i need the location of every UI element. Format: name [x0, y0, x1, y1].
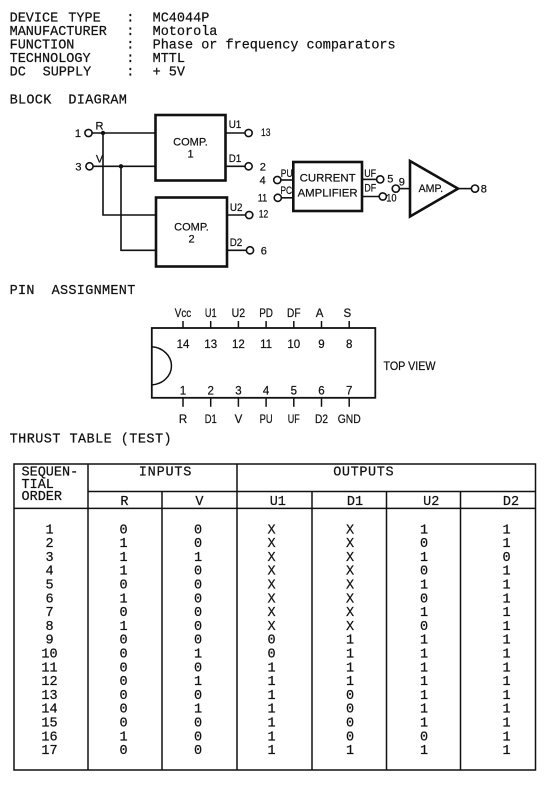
svg-text:1: 1 — [194, 648, 202, 663]
svg-text:Vcc: Vcc — [175, 308, 192, 320]
svg-text:8: 8 — [481, 184, 487, 196]
svg-text:0: 0 — [194, 565, 202, 580]
svg-text:1: 1 — [267, 661, 275, 676]
svg-text:1: 1 — [420, 744, 428, 759]
svg-text:6: 6 — [261, 245, 267, 257]
svg-text:14: 14 — [177, 339, 190, 351]
svg-text:4: 4 — [45, 565, 53, 580]
svg-text:6: 6 — [45, 592, 53, 607]
svg-text:0: 0 — [267, 634, 275, 649]
svg-text:13: 13 — [261, 127, 271, 139]
svg-text:1: 1 — [502, 565, 510, 580]
svg-text:1: 1 — [194, 675, 202, 690]
svg-text:5: 5 — [45, 579, 53, 594]
wire R: pin1 to COMP.1 input — [92, 132, 155, 134]
svg-text:0: 0 — [346, 730, 354, 745]
svg-text:D2: D2 — [230, 237, 243, 249]
svg-text:13: 13 — [204, 339, 217, 351]
svg-text:10: 10 — [41, 648, 57, 663]
terminal circle D1 / pin 2 — [245, 163, 252, 170]
terminal circle PC / pin 11 — [274, 194, 281, 201]
svg-text:1: 1 — [119, 592, 127, 607]
svg-text:0: 0 — [119, 661, 127, 676]
wire D1 output — [226, 165, 246, 167]
terminal circle DF / pin 10 — [379, 193, 386, 200]
svg-text:COMP.: COMP. — [173, 137, 208, 149]
svg-text:1: 1 — [267, 703, 275, 718]
svg-text:7: 7 — [346, 385, 352, 397]
terminal circle U2 / pin 12 — [246, 211, 253, 218]
svg-text:0: 0 — [420, 592, 428, 607]
pin 9 tick (A) — [321, 321, 323, 328]
pin 11 tick (PD) — [265, 321, 267, 328]
svg-text:0: 0 — [346, 717, 354, 732]
svg-text:1: 1 — [180, 385, 186, 397]
svg-text:UF: UF — [364, 168, 376, 180]
svg-text:16: 16 — [41, 730, 57, 745]
svg-text:TOP VIEW: TOP VIEW — [384, 361, 436, 373]
svg-text:S: S — [343, 308, 351, 320]
pin 10 tick (DF) — [293, 321, 295, 328]
svg-text:0: 0 — [119, 703, 127, 718]
svg-text:10: 10 — [287, 339, 300, 351]
spec list: device type / manufacturer / function / technology / dc supply — [10, 11, 396, 80]
wire AMP output to pin 8 — [458, 188, 471, 190]
svg-text:0: 0 — [420, 565, 428, 580]
svg-text:0: 0 — [119, 606, 127, 621]
pin 1 terminal circle — [85, 129, 92, 136]
svg-text:1: 1 — [119, 730, 127, 745]
svg-text:1: 1 — [502, 717, 510, 732]
svg-text:0: 0 — [194, 579, 202, 594]
junction dot node V — [119, 164, 123, 168]
svg-text:1: 1 — [420, 606, 428, 621]
svg-text:U1: U1 — [229, 119, 242, 131]
svg-text:X: X — [346, 606, 354, 621]
svg-text:0: 0 — [194, 744, 202, 759]
wire UF output — [362, 178, 377, 180]
svg-text:1: 1 — [194, 703, 202, 718]
svg-text:0: 0 — [194, 523, 202, 538]
svg-text:4: 4 — [260, 175, 266, 187]
wire U2 output — [227, 214, 246, 216]
svg-text:10: 10 — [386, 193, 396, 205]
svg-text:PC: PC — [280, 185, 292, 197]
svg-text:11: 11 — [41, 661, 57, 676]
comparator COMP.1 box — [156, 115, 226, 181]
pin 12 tick (U2) — [237, 321, 239, 328]
svg-text:2: 2 — [260, 161, 266, 173]
svg-text:17: 17 — [41, 744, 57, 759]
pin 3 tick (V) — [237, 398, 239, 407]
svg-text:0: 0 — [194, 620, 202, 635]
svg-text:3: 3 — [45, 551, 53, 566]
wire pin9 to AMP input — [399, 188, 410, 190]
svg-text:+ 5V: + 5V — [153, 66, 186, 81]
svg-text:1: 1 — [346, 634, 354, 649]
svg-text:1: 1 — [420, 689, 428, 704]
svg-text:0: 0 — [194, 661, 202, 676]
wire V: pin3 to COMP.1 input — [93, 165, 156, 167]
svg-text:0: 0 — [119, 648, 127, 663]
svg-text:GND: GND — [338, 414, 361, 426]
svg-text:1: 1 — [346, 675, 354, 690]
wire PC input — [281, 197, 293, 199]
svg-text:0: 0 — [194, 592, 202, 607]
svg-text:DC: DC — [10, 66, 26, 81]
svg-text:PU: PU — [260, 414, 273, 426]
pin 2 tick (D1) — [210, 398, 212, 407]
truth table grid — [14, 464, 536, 770]
svg-text::: : — [126, 66, 134, 81]
wire U1 output — [226, 132, 246, 134]
svg-text:1: 1 — [420, 634, 428, 649]
svg-text:1: 1 — [420, 551, 428, 566]
svg-text:1: 1 — [119, 551, 127, 566]
svg-text:0: 0 — [346, 689, 354, 704]
svg-text:14: 14 — [41, 703, 57, 718]
svg-text:D2: D2 — [503, 495, 519, 510]
svg-text:U2: U2 — [230, 202, 243, 214]
terminal circle PU / pin 4 — [274, 176, 281, 183]
svg-text:0: 0 — [119, 579, 127, 594]
svg-text:4: 4 — [263, 385, 270, 397]
svg-text:12: 12 — [41, 675, 57, 690]
svg-text:0: 0 — [502, 551, 510, 566]
svg-text:D2: D2 — [315, 414, 328, 426]
svg-text:11: 11 — [258, 193, 268, 205]
svg-text:0: 0 — [194, 634, 202, 649]
svg-text:0: 0 — [194, 730, 202, 745]
svg-text:UF: UF — [288, 414, 300, 426]
svg-text:7: 7 — [45, 606, 53, 621]
svg-text:X: X — [267, 606, 275, 621]
svg-text:U1: U1 — [270, 495, 286, 510]
svg-text:2: 2 — [207, 385, 213, 397]
svg-text:PD: PD — [259, 308, 273, 320]
pin 13 tick (U1) — [210, 321, 212, 328]
junction dot node R — [101, 131, 105, 135]
wire V branch down to COMP.2 — [121, 166, 156, 250]
svg-text:INPUTS: INPUTS — [139, 466, 192, 481]
svg-text:U1: U1 — [205, 308, 217, 320]
svg-text:0: 0 — [119, 523, 127, 538]
svg-text:1: 1 — [267, 689, 275, 704]
svg-text:12: 12 — [259, 209, 269, 221]
svg-text:1: 1 — [267, 744, 275, 759]
svg-text:2: 2 — [188, 233, 194, 245]
svg-text:DF: DF — [287, 308, 301, 320]
svg-text:1: 1 — [502, 523, 510, 538]
svg-text:X: X — [346, 565, 354, 580]
table data rows — [41, 523, 510, 759]
pin 5 tick (UF) — [293, 398, 295, 407]
svg-text:5: 5 — [387, 174, 393, 186]
svg-text:1: 1 — [346, 661, 354, 676]
svg-text:3: 3 — [235, 385, 241, 397]
svg-text:X: X — [346, 579, 354, 594]
svg-text:13: 13 — [41, 689, 57, 704]
svg-text:D1: D1 — [205, 414, 217, 426]
svg-text:THRUST TABLE (TEST): THRUST TABLE (TEST) — [10, 433, 172, 448]
svg-text:1: 1 — [420, 579, 428, 594]
terminal circle pin 9 — [392, 185, 399, 192]
svg-text:0: 0 — [420, 537, 428, 552]
svg-text:R: R — [120, 495, 128, 510]
svg-text:9: 9 — [45, 634, 53, 649]
IC package DIP-14 outline — [152, 328, 375, 398]
svg-text:1: 1 — [420, 675, 428, 690]
pin 14 tick (Vcc) — [182, 321, 184, 328]
svg-text:1: 1 — [420, 717, 428, 732]
svg-text:1: 1 — [420, 703, 428, 718]
svg-text:1: 1 — [502, 634, 510, 649]
svg-text:1: 1 — [119, 565, 127, 580]
svg-text:D1: D1 — [347, 495, 363, 510]
svg-text:1: 1 — [502, 537, 510, 552]
svg-text:X: X — [267, 592, 275, 607]
pin 3 terminal circle — [86, 163, 93, 170]
svg-text:1: 1 — [420, 661, 428, 676]
terminal circle pin 8 — [471, 185, 478, 192]
svg-text:0: 0 — [119, 634, 127, 649]
svg-text:X: X — [267, 620, 275, 635]
svg-text:0: 0 — [194, 606, 202, 621]
svg-text:1: 1 — [502, 661, 510, 676]
svg-text:0: 0 — [119, 675, 127, 690]
svg-text:R: R — [179, 414, 187, 426]
svg-text:X: X — [267, 565, 275, 580]
svg-text:AMPLIFIER: AMPLIFIER — [298, 188, 358, 200]
svg-text:0: 0 — [420, 730, 428, 745]
pin 4 tick (PU) — [265, 398, 267, 407]
svg-text:6: 6 — [318, 385, 324, 397]
svg-text:CURRENT: CURRENT — [300, 173, 356, 185]
svg-text:1: 1 — [267, 675, 275, 690]
svg-text:9: 9 — [399, 176, 405, 188]
svg-text:1: 1 — [187, 149, 193, 161]
svg-text:PU: PU — [281, 168, 293, 180]
svg-text:1: 1 — [194, 551, 202, 566]
current amplifier box U3 — [293, 162, 362, 211]
svg-text:X: X — [346, 537, 354, 552]
svg-text:BLOCK DIAGRAM: BLOCK DIAGRAM — [10, 93, 128, 108]
wire R branch down to COMP.2 — [103, 133, 156, 215]
svg-text:0: 0 — [420, 620, 428, 635]
svg-text:0: 0 — [346, 703, 354, 718]
svg-text:R: R — [96, 120, 104, 132]
svg-text:X: X — [346, 551, 354, 566]
svg-text:U2: U2 — [232, 308, 246, 320]
svg-text:0: 0 — [194, 717, 202, 732]
svg-text:D1: D1 — [229, 153, 242, 165]
comparator COMP.2 box — [156, 198, 227, 267]
svg-text:U2: U2 — [423, 495, 439, 510]
svg-text:V: V — [96, 153, 104, 165]
pin 6 tick (D2) — [321, 398, 323, 407]
svg-text:1: 1 — [119, 537, 127, 552]
svg-text:X: X — [267, 537, 275, 552]
svg-text:V: V — [235, 414, 243, 426]
svg-text:11: 11 — [260, 339, 272, 351]
svg-text:1: 1 — [502, 744, 510, 759]
svg-text:1: 1 — [502, 592, 510, 607]
terminal circle U1 / pin 13 — [245, 129, 252, 136]
svg-text:1: 1 — [502, 730, 510, 745]
svg-text:0: 0 — [194, 689, 202, 704]
svg-text:1: 1 — [119, 620, 127, 635]
svg-text:2: 2 — [45, 537, 53, 552]
svg-text:AMP.: AMP. — [419, 183, 444, 195]
svg-text:0: 0 — [119, 689, 127, 704]
svg-text:5: 5 — [291, 385, 297, 397]
svg-text:0: 0 — [267, 648, 275, 663]
pin 1 tick (R) — [182, 398, 184, 407]
svg-text:1: 1 — [45, 523, 53, 538]
svg-text:12: 12 — [232, 339, 245, 351]
svg-text:1: 1 — [346, 744, 354, 759]
svg-text:Phase or frequency comparators: Phase or frequency comparators — [153, 39, 396, 54]
svg-text:A: A — [316, 308, 324, 320]
svg-text:V: V — [195, 495, 204, 510]
pin 8 tick (S) — [348, 321, 350, 328]
svg-text:3: 3 — [75, 162, 81, 174]
table header texts — [22, 466, 520, 511]
svg-text:8: 8 — [45, 620, 53, 635]
wire D2 output — [227, 249, 246, 251]
svg-text:COMP.: COMP. — [174, 221, 209, 233]
svg-text:1: 1 — [267, 730, 275, 745]
svg-text:1: 1 — [502, 606, 510, 621]
svg-text:8: 8 — [346, 339, 352, 351]
svg-text:X: X — [267, 551, 275, 566]
op-amp AMP. triangle — [410, 161, 458, 217]
svg-text:1: 1 — [346, 648, 354, 663]
svg-text:0: 0 — [119, 717, 127, 732]
svg-text:1: 1 — [502, 703, 510, 718]
svg-text:X: X — [267, 579, 275, 594]
package index notch semicircle — [152, 347, 172, 385]
svg-text:PIN ASSIGNMENT: PIN ASSIGNMENT — [10, 284, 136, 299]
svg-text:X: X — [346, 620, 354, 635]
svg-text:ORDER: ORDER — [22, 490, 63, 505]
wire PU input — [281, 179, 293, 181]
svg-text:15: 15 — [41, 717, 57, 732]
svg-text:1: 1 — [420, 523, 428, 538]
pin 7 tick (GND) — [348, 398, 350, 407]
svg-text:1: 1 — [502, 675, 510, 690]
svg-text:DF: DF — [364, 183, 376, 195]
svg-text:X: X — [346, 523, 354, 538]
svg-text:1: 1 — [502, 689, 510, 704]
svg-text:0: 0 — [119, 744, 127, 759]
svg-text:1: 1 — [502, 648, 510, 663]
svg-text:1: 1 — [420, 648, 428, 663]
wire DF output — [362, 196, 379, 198]
svg-text:SUPPLY: SUPPLY — [43, 66, 92, 81]
labels around current amplifier — [258, 168, 397, 205]
svg-text:0: 0 — [194, 537, 202, 552]
svg-text:X: X — [346, 592, 354, 607]
svg-text:1: 1 — [502, 620, 510, 635]
terminal circle UF / pin 5 — [377, 176, 384, 183]
svg-text:OUTPUTS: OUTPUTS — [333, 466, 394, 481]
svg-text:X: X — [267, 523, 275, 538]
svg-text:1: 1 — [267, 717, 275, 732]
svg-text:1: 1 — [502, 579, 510, 594]
svg-text:9: 9 — [318, 339, 324, 351]
terminal circle D2 / pin 6 — [246, 247, 253, 254]
labels around comparators — [75, 119, 271, 257]
svg-text:1: 1 — [75, 128, 81, 140]
